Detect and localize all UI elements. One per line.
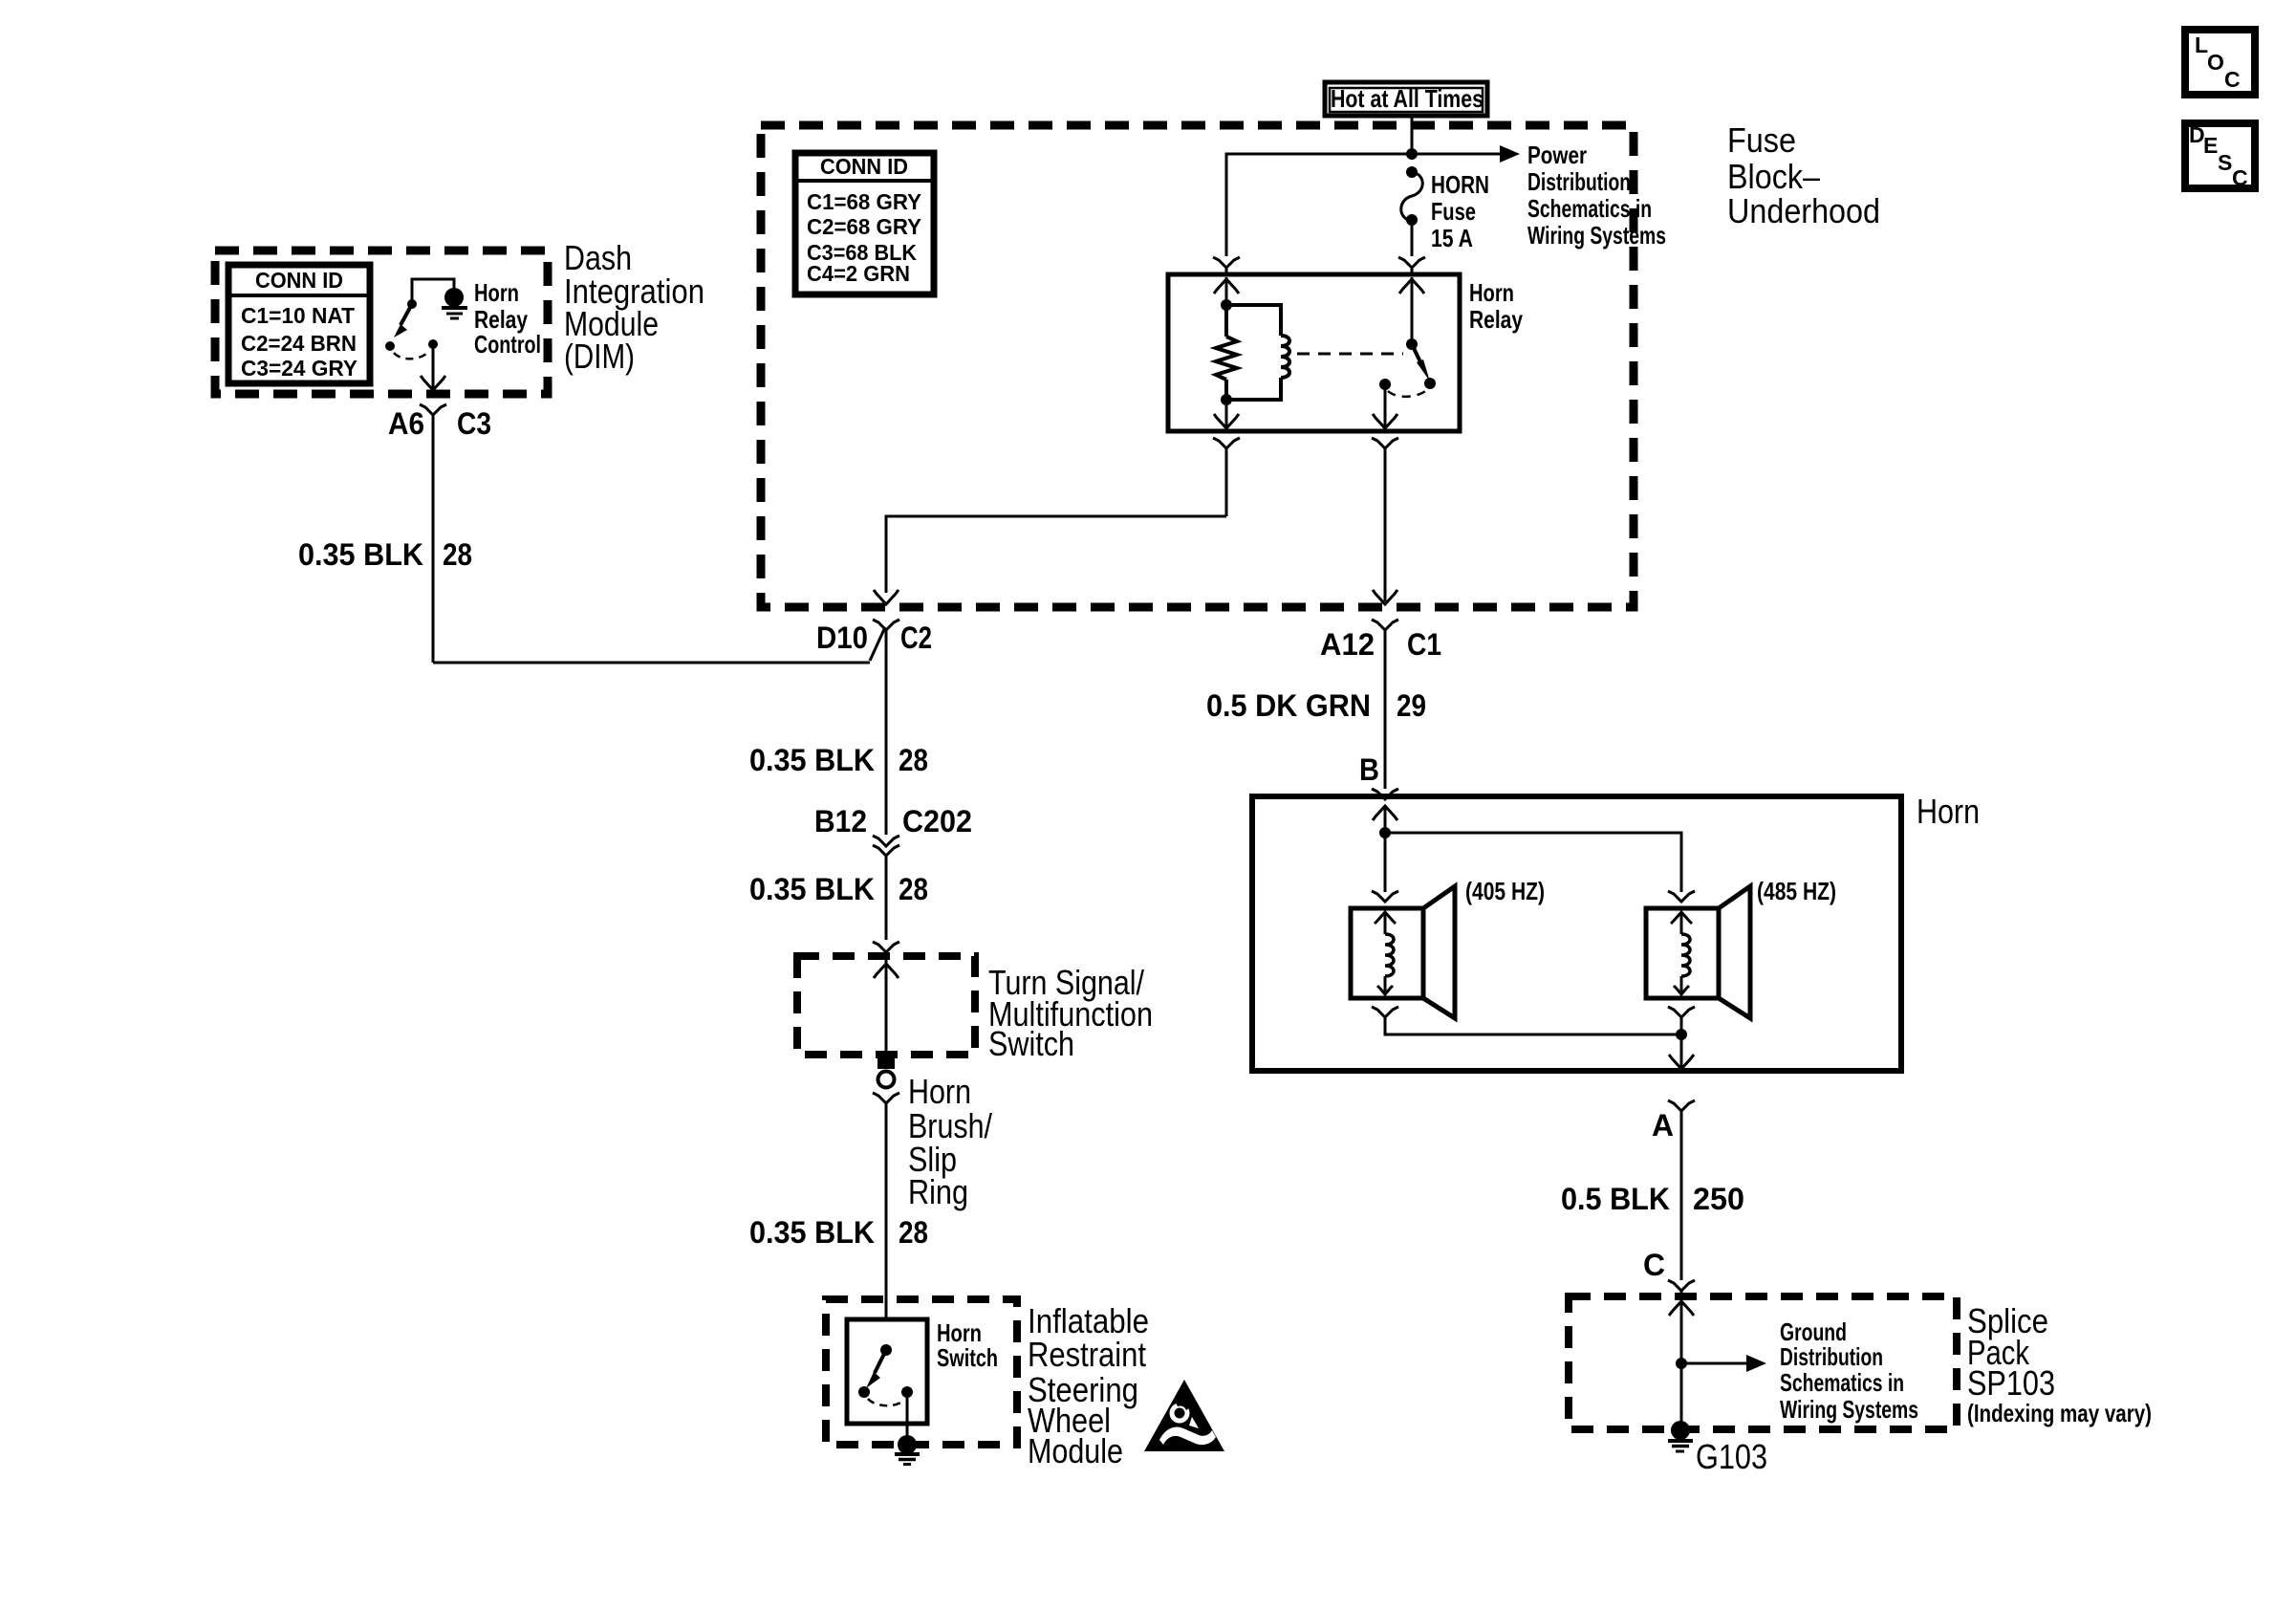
arrow into horn box [1373, 806, 1397, 833]
wire: junction to right horn [1385, 833, 1681, 892]
relay coil branch arrow in [1214, 277, 1239, 305]
ground G103 [1668, 1421, 1693, 1451]
label: A12 / C1 [1320, 627, 1441, 662]
Inflatable Restraint Steering Wheel Module dashed outline [826, 1299, 1017, 1445]
svg-text:C3: C3 [457, 406, 491, 441]
label: 0.5 DK GRN / 29 [1206, 688, 1426, 723]
ground: DIM internal [442, 288, 467, 318]
label: 0.35 BLK / 28 (above B12) [749, 743, 928, 777]
DESC legend box [2185, 122, 2255, 190]
Splice Pack SP103 dashed outline [1569, 1296, 1957, 1429]
svg-text:Restraint: Restraint [1028, 1335, 1146, 1374]
horn brush slip ring circle [878, 1072, 895, 1088]
svg-text:Horn: Horn [474, 278, 519, 307]
connector A half below horn box [1668, 1100, 1695, 1280]
svg-text:E: E [2203, 133, 2218, 158]
svg-text:Distribution: Distribution [1527, 167, 1631, 196]
svg-text:Horn: Horn [1917, 792, 1980, 831]
svg-text:C1: C1 [1407, 627, 1441, 662]
label: Horn Relay Control [474, 278, 541, 359]
svg-text:Schematics in: Schematics in [1780, 1368, 1904, 1397]
Hot at All Times power feed box [1325, 82, 1487, 116]
label: Dash Integration Module (DIM) [564, 238, 704, 376]
CONN ID table (DIM) [228, 265, 370, 383]
Turn Signal / Multifunction Switch dashed box [797, 956, 975, 1055]
svg-text:Switch: Switch [937, 1343, 998, 1372]
svg-text:Wiring Systems: Wiring Systems [1780, 1395, 1918, 1424]
svg-text:Hot at All Times: Hot at All Times [1331, 84, 1484, 113]
svg-text:D10: D10 [816, 620, 868, 655]
connector C3 half below DIM [420, 404, 446, 663]
label: Horn Switch [937, 1318, 998, 1372]
node: splice junction [1676, 1358, 1687, 1369]
svg-text:L: L [2195, 33, 2208, 57]
svg-text:28: 28 [443, 537, 472, 572]
label: D10 / C2 [816, 620, 932, 655]
connector half above turn signal switch [873, 942, 899, 1055]
switch: horn switch [858, 1344, 913, 1405]
svg-text:HORN: HORN [1431, 170, 1489, 199]
connector half: relay coil feed [1213, 257, 1240, 268]
svg-text:Power: Power [1527, 141, 1587, 169]
svg-text:28: 28 [899, 872, 928, 906]
node: horn ground junction [1676, 1029, 1687, 1040]
label: B12 / C202 [814, 804, 972, 838]
horn element left (405 HZ) [1351, 886, 1455, 1018]
label: Turn Signal/ Multifunction Switch [988, 963, 1153, 1063]
svg-text:C1=10 NAT: C1=10 NAT [241, 303, 355, 328]
svg-text:(DIM): (DIM) [564, 337, 635, 376]
wire: Hot box down to junction [1411, 116, 1414, 154]
relay switch branch arrow in [1399, 279, 1424, 294]
connector half below left horn [1372, 1007, 1681, 1034]
svg-text:C2: C2 [900, 620, 932, 655]
svg-text:Control: Control [474, 330, 541, 359]
label: Inflatable Restraint Steering Wheel Module [1028, 1301, 1149, 1470]
svg-text:A12: A12 [1320, 627, 1375, 662]
svg-text:B: B [1359, 752, 1379, 787]
label: Horn Relay [1469, 278, 1523, 334]
connector C half above splice pack [1668, 1280, 1695, 1300]
svg-text:B12: B12 [814, 804, 867, 838]
svg-text:O: O [2207, 50, 2224, 75]
wire: relay output to box edge with arrow [1373, 384, 1397, 428]
connector C2 half below fuse block [873, 620, 899, 835]
svg-text:Fuse: Fuse [1431, 197, 1476, 226]
svg-text:0.35 BLK: 0.35 BLK [298, 537, 423, 572]
svg-text:CONN ID: CONN ID [255, 268, 343, 293]
relay coil L (inductor loop) [1226, 305, 1289, 400]
node: coil top [1221, 299, 1232, 311]
relay switch arm [1406, 277, 1436, 389]
ground distribution arrow [1681, 1355, 1766, 1372]
svg-text:0.5 DK GRN: 0.5 DK GRN [1206, 688, 1371, 723]
wire: junction left to relay branch [1226, 154, 1412, 256]
label: 0.35 BLK / 28 (DIM drop) [298, 537, 472, 572]
svg-text:C: C [1643, 1248, 1665, 1282]
arrow at A12 exit [1373, 590, 1397, 604]
wire: junction down with arrow at horn box edge [1669, 1034, 1694, 1069]
svg-text:Block–: Block– [1727, 157, 1820, 196]
LOC legend box [2185, 30, 2255, 95]
label: HORN Fuse 15 A [1431, 170, 1489, 252]
svg-text:29: 29 [1397, 688, 1426, 723]
label: Splice Pack SP103 (Indexing may vary) [1967, 1301, 2152, 1427]
wire: DIM to D10 connector [433, 627, 885, 663]
svg-text:Module: Module [1028, 1431, 1123, 1470]
svg-text:28: 28 [899, 1215, 928, 1250]
svg-text:0.35 BLK: 0.35 BLK [749, 1215, 875, 1250]
label: Power Distribution Schematics in Wiring Systems [1527, 141, 1666, 250]
svg-text:CONN ID: CONN ID [820, 154, 908, 179]
relay output contact [1379, 379, 1391, 390]
node: coil bottom [1221, 394, 1232, 405]
svg-text:0.5 BLK: 0.5 BLK [1561, 1182, 1670, 1216]
svg-text:(Indexing may vary): (Indexing may vary) [1967, 1399, 2152, 1427]
arrow inside turn signal box [874, 964, 899, 978]
connector half below right horn [1668, 1007, 1695, 1034]
label: Fuse Block-Underhood [1727, 120, 1880, 230]
power distribution arrow [1412, 145, 1520, 163]
svg-text:C2=24 BRN: C2=24 BRN [241, 331, 357, 356]
label: Horn Brush/ Slip Ring [908, 1072, 992, 1211]
connector C1 half below fuse block [1372, 620, 1398, 789]
svg-text:A6: A6 [388, 406, 424, 441]
wire: into relay box [1225, 268, 1228, 274]
horn element right (485 HZ) [1646, 886, 1750, 1018]
wire: junction to left horn [1384, 833, 1387, 892]
wire: switch output with arrow to DIM edge [421, 344, 445, 390]
Dash Integration Module dashed outline [215, 250, 548, 394]
label: 0.5 BLK / 250 [1561, 1182, 1744, 1216]
CONN ID table (fuse block) [795, 153, 934, 294]
horn switch box [847, 1319, 927, 1424]
svg-text:0.35 BLK: 0.35 BLK [749, 872, 875, 906]
label: Ground Distribution Schematics in Wiring Systems [1780, 1317, 1918, 1424]
connector B half above horn box [1372, 789, 1398, 799]
svg-text:Horn: Horn [908, 1072, 971, 1111]
label: A6 / C3 [388, 406, 491, 441]
svg-text:Wiring Systems: Wiring Systems [1527, 221, 1666, 250]
Horn assembly box [1252, 796, 1901, 1071]
svg-text:Horn: Horn [1469, 278, 1514, 307]
resistor R (relay) [1216, 305, 1237, 400]
label: 0.35 BLK / 28 (above steering wheel module) [749, 1215, 928, 1250]
svg-text:SP103: SP103 [1967, 1363, 2055, 1403]
label: 0.35 BLK / 28 (above turn signal switch) [749, 872, 928, 906]
svg-text:Ring: Ring [908, 1172, 968, 1211]
svg-text:Distribution: Distribution [1780, 1342, 1883, 1371]
svg-text:C1=68 GRY: C1=68 GRY [807, 189, 921, 214]
airbag warning triangle [1144, 1380, 1224, 1451]
svg-text:C: C [2232, 165, 2248, 190]
node: power junction [1406, 148, 1418, 160]
svg-text:Switch: Switch [988, 1024, 1074, 1063]
fuse F1 HORN 15A [1401, 166, 1423, 256]
svg-text:C2=68 GRY: C2=68 GRY [807, 214, 921, 239]
switch: horn relay control [385, 279, 454, 359]
wire: relay control to D10 [886, 516, 1226, 593]
svg-text:(485 HZ): (485 HZ) [1757, 877, 1836, 905]
arrow into splice pack [1669, 1301, 1694, 1428]
node: horn feed junction [1379, 827, 1391, 838]
svg-text:S: S [2218, 150, 2232, 175]
connector half above right horn [1668, 891, 1695, 902]
svg-text:C4=2 GRN: C4=2 GRN [807, 261, 910, 286]
dashed throw arc [1388, 389, 1428, 397]
connector half: below relay right [1372, 438, 1398, 601]
relay K1 Horn Relay box [1168, 274, 1460, 431]
svg-text:Relay: Relay [1469, 305, 1523, 334]
svg-text:Underhood: Underhood [1727, 191, 1880, 230]
wire: coil bottom to box edge with arrow [1214, 400, 1239, 428]
connector C202 inline (double chevron) [873, 836, 899, 940]
ground G (steering wheel module) [895, 1435, 920, 1465]
connector half: below relay left [1213, 438, 1240, 516]
arrow into fuse block edge at D10 [874, 590, 899, 604]
svg-text:28: 28 [899, 743, 928, 777]
dashed actuating link [1297, 353, 1403, 356]
svg-text:250: 250 [1693, 1182, 1744, 1216]
svg-text:15 A: 15 A [1431, 224, 1473, 252]
svg-text:(405 HZ): (405 HZ) [1465, 877, 1545, 905]
svg-text:0.35 BLK: 0.35 BLK [749, 743, 875, 777]
connector half above left horn [1372, 891, 1398, 902]
Fuse Block - Underhood dashed outline [761, 125, 1634, 607]
horn brush contact square [877, 1055, 895, 1069]
wire: horn switch to ground [906, 1392, 909, 1439]
connector half below slip ring [873, 1093, 899, 1319]
svg-text:A: A [1652, 1108, 1674, 1143]
svg-text:C: C [2224, 67, 2241, 92]
svg-text:Fuse: Fuse [1727, 120, 1796, 160]
connector half: fuse output [1398, 257, 1425, 268]
svg-text:C3=24 GRY: C3=24 GRY [241, 356, 357, 381]
svg-text:G103: G103 [1696, 1437, 1767, 1476]
svg-text:C202: C202 [902, 804, 972, 838]
